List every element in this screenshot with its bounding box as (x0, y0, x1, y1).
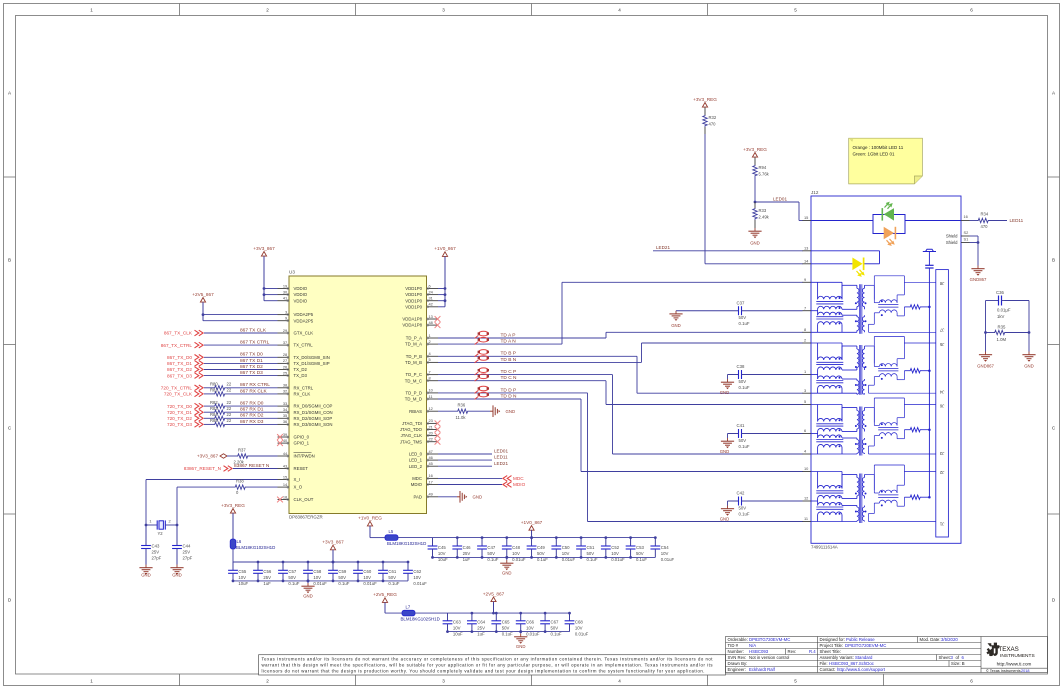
svg-text:+1V0_867: +1V0_867 (521, 520, 543, 525)
wire RBIAS (438, 410, 457, 412)
svg-text:36: 36 (283, 419, 287, 424)
svg-text:LED_1: LED_1 (409, 458, 423, 463)
port 867_TX_D0 (195, 355, 199, 361)
svg-text:C52: C52 (611, 545, 619, 550)
jumper symbol on TD_A_N (479, 337, 489, 342)
svg-text:TD_P_B: TD_P_B (406, 354, 422, 359)
svg-text:B: B (1052, 258, 1055, 263)
node VDDA2P5 junction (202, 313, 205, 316)
svg-text:867 RX D0: 867 RX D0 (240, 401, 264, 407)
no-connect X JTAG_CLK (435, 433, 441, 439)
no-connect X VDDA1P8 pin 48 (435, 322, 441, 328)
capacitor C52 0.01uF (605, 538, 607, 546)
svg-text:8: 8 (429, 376, 431, 381)
svg-text:41: 41 (283, 296, 287, 301)
svg-text:10V: 10V (575, 626, 583, 631)
svg-text:12: 12 (429, 406, 433, 411)
wire TD_B_P vertical to magnetics (636, 356, 638, 393)
svg-text:50V: 50V (288, 575, 296, 580)
svg-text:867 RX D1: 867 RX D1 (240, 407, 264, 413)
svg-text:L7: L7 (406, 605, 411, 610)
svg-text:38: 38 (283, 383, 287, 388)
svg-text:4: 4 (618, 8, 621, 13)
svg-text:5.76k: 5.76k (759, 172, 770, 177)
svg-text:Mod. Date:: Mod. Date: (920, 637, 941, 642)
node VDD1P0 junctions (444, 287, 447, 290)
svg-text:DP83867ERGZR: DP83867ERGZR (289, 515, 323, 520)
wire TD_A_P vertical to magnetics (605, 332, 607, 338)
svg-text:DP83TG720EVM-MC: DP83TG720EVM-MC (845, 643, 886, 648)
wire TD_D_N vertical to magnetics (580, 399, 582, 472)
wire 867_TX_D2 (204, 369, 278, 371)
svg-text:C54: C54 (661, 545, 669, 550)
svg-text:1: 1 (804, 369, 806, 374)
svg-text:TD B N: TD B N (501, 357, 517, 363)
svg-text:22: 22 (227, 382, 232, 387)
svg-text:R34: R34 (981, 212, 989, 217)
svg-text:R81: R81 (210, 388, 218, 393)
no-connect X JTAG_TMS (435, 439, 441, 445)
wire TD_C_N vertical to magnetics (605, 381, 607, 405)
wire 867_TX_CTRL (204, 344, 278, 346)
svg-text:720_TX_CTRL: 720_TX_CTRL (161, 386, 193, 391)
svg-text:R84: R84 (210, 412, 218, 417)
svg-text:1: 1 (429, 333, 431, 338)
svg-text:22: 22 (429, 437, 433, 442)
svg-text:TX_D0/SGMII_SIN: TX_D0/SGMII_SIN (294, 355, 330, 360)
wire 867_TX_D3 (204, 375, 278, 377)
svg-text:25V: 25V (183, 550, 191, 555)
svg-text:TD_P_A: TD_P_A (406, 336, 422, 341)
svg-text:48: 48 (429, 320, 433, 325)
svg-text:GND867: GND867 (977, 364, 994, 369)
wire +3V3 rail top (233, 561, 408, 563)
svg-text:+3V3_REG: +3V3_REG (221, 503, 245, 508)
wire 867_RX_CTRL (226, 387, 278, 389)
svg-text:C42: C42 (737, 491, 745, 496)
port 867_TX_CLK (195, 330, 199, 336)
capacitor C57 0.1uF (282, 562, 284, 570)
svg-text:VDD1P0: VDD1P0 (405, 286, 422, 291)
power +2V5_867 to VDDA2P5 (200, 298, 205, 303)
svg-text:C50: C50 (562, 545, 570, 550)
svg-text:J2: J2 (939, 470, 944, 475)
capacitor C61 0.1uF (382, 562, 384, 570)
shield hat symbol (923, 249, 936, 251)
svg-text:Shield: Shield (946, 240, 958, 245)
wire 867_TX_D0 (204, 356, 278, 358)
no-connect X JTAG_TDI (435, 421, 441, 427)
svg-text:+3V3_REG: +3V3_REG (743, 147, 767, 152)
power +1V0_867 riser on rail (529, 526, 534, 531)
svg-text:0.1uF: 0.1uF (739, 321, 750, 326)
svg-text:Sheet Title:: Sheet Title: (820, 649, 842, 654)
svg-text:4: 4 (618, 678, 621, 683)
svg-text:83867_RESET_N: 83867_RESET_N (184, 466, 221, 471)
svg-text:LED11: LED11 (1010, 218, 1024, 223)
wire X_O to R38 (247, 486, 278, 488)
resistor R35 1.0M (986, 332, 995, 334)
svg-text:2: 2 (266, 678, 269, 683)
J12 shield pins S2 S1 (961, 235, 970, 237)
svg-text:867_TX_D2: 867_TX_D2 (167, 367, 192, 372)
port 867_TX_D2 (195, 367, 199, 373)
svg-text:10V: 10V (238, 575, 246, 580)
svg-text:VDD1P0: VDD1P0 (405, 304, 422, 309)
wire LED01 (438, 453, 492, 455)
svg-text:35: 35 (283, 413, 287, 418)
capacitor C53 0.1uF (630, 538, 632, 546)
svg-text:TD_M_D: TD_M_D (405, 397, 422, 402)
svg-text:0.1uF: 0.1uF (338, 581, 349, 586)
ground GND867 shield (977, 266, 979, 269)
svg-text:50V: 50V (551, 626, 559, 631)
svg-text:VDDA2P5: VDDA2P5 (294, 312, 314, 317)
svg-text:BLM18KG102SH1D: BLM18KG102SH1D (236, 545, 275, 550)
svg-text:DP83TG720EVM-MC: DP83TG720EVM-MC (749, 637, 790, 642)
J12 strip jack labels (939, 281, 944, 286)
svg-text:TD_P_D: TD_P_D (406, 391, 422, 396)
wire shield pins to GND867 (970, 235, 979, 237)
LED green 1Gbit (884, 208, 894, 221)
resistor R36 11.0k (457, 409, 469, 413)
svg-text:10uF: 10uF (438, 557, 448, 562)
wire 867_RX_D1 (226, 411, 278, 413)
svg-text:VDDIO: VDDIO (294, 298, 308, 303)
capacitor C60 0.01uF (357, 562, 359, 570)
capacitor C65 0.1uF (495, 613, 497, 621)
capacitor C56 1uF (257, 562, 259, 570)
svg-text:GND: GND (141, 573, 151, 578)
svg-text:33: 33 (283, 401, 287, 406)
svg-text:RX_D3/SGMII_SON: RX_D3/SGMII_SON (294, 422, 333, 427)
wire +1V0 rail top (398, 537, 655, 539)
svg-text:2: 2 (804, 338, 806, 343)
svg-text:C45: C45 (438, 545, 446, 550)
wire MDC (438, 477, 502, 479)
svg-text:X_I: X_I (294, 477, 300, 482)
port 720_TX_D1 (195, 409, 199, 415)
svg-text:C60: C60 (363, 569, 371, 574)
capacitor C50 0.01uF (555, 538, 557, 546)
svg-text:Green: 1Gbit LED 01: Green: 1Gbit LED 01 (853, 151, 896, 156)
svg-text:JTAG_CLK: JTAG_CLK (401, 433, 423, 438)
wire PAD to GND (438, 496, 457, 498)
svg-text:U3: U3 (289, 269, 295, 274)
wire 867_RX_CLK (226, 393, 278, 395)
ground GND at PAD (457, 496, 460, 498)
crystal Y2 (146, 524, 157, 526)
svg-text:6: 6 (804, 428, 806, 433)
capacitor shield internal (928, 252, 930, 266)
svg-text:LED21: LED21 (656, 245, 670, 250)
svg-text:C36: C36 (996, 290, 1004, 295)
port 720_TX_D0 (195, 403, 199, 409)
svg-text:GND: GND (473, 495, 483, 500)
wire VDDA2P5 feed (203, 314, 278, 316)
svg-text:18: 18 (283, 494, 287, 499)
svg-text:File:: File: (820, 661, 828, 666)
jumper symbol on TD_B_N (479, 356, 489, 361)
svg-text:50V: 50V (636, 551, 644, 556)
svg-text:B: B (8, 258, 11, 263)
jumper symbol on TD_D_N (479, 392, 489, 397)
svg-text:L5: L5 (389, 529, 394, 534)
svg-text:GND: GND (303, 594, 313, 599)
wire MDIO (438, 484, 502, 486)
ground GND at C37 (675, 311, 677, 314)
capacitor C38 0.1uF center tap (728, 374, 739, 376)
svg-text:867_TX_D0: 867_TX_D0 (167, 355, 192, 360)
svg-text:17: 17 (429, 479, 433, 484)
wire 867_TX_D1 (204, 362, 278, 364)
svg-text:C57: C57 (288, 569, 296, 574)
svg-text:10V: 10V (611, 551, 619, 556)
svg-text:RX_D1/SGMII_CON: RX_D1/SGMII_CON (294, 410, 333, 415)
wire +1V0_REG to L5 (370, 537, 385, 539)
no-connect X CLK_OUT pin 18 (277, 497, 283, 503)
svg-text:0.01uF: 0.01uF (413, 581, 427, 586)
resistor R94 5.76k (753, 165, 757, 177)
wire TD_B_N from U3 (438, 361, 642, 363)
wire TD_A_P from U3 (438, 337, 606, 339)
wire shield rail vertical (928, 268, 930, 497)
title block (726, 637, 1048, 673)
svg-text:22: 22 (227, 388, 232, 393)
power +3V3_REG at R94 (752, 153, 757, 158)
svg-text:10uF: 10uF (453, 632, 463, 637)
svg-text:15: 15 (804, 215, 808, 220)
ground GND at RBIAS (490, 410, 493, 412)
svg-text:8: 8 (804, 327, 806, 332)
svg-text:470: 470 (709, 122, 717, 127)
jumper symbol on TD_C_N (479, 374, 489, 379)
wire TD_A_N from U3 (438, 343, 562, 345)
svg-text:21: 21 (429, 424, 433, 429)
svg-text:7: 7 (804, 305, 806, 310)
svg-text:867 TX D1: 867 TX D1 (240, 358, 263, 364)
svg-text:9: 9 (804, 277, 806, 282)
svg-text:C43: C43 (152, 544, 160, 549)
svg-text:GND: GND (516, 644, 526, 649)
svg-text:TD D P: TD D P (501, 387, 517, 393)
svg-text:867 TX D0: 867 TX D0 (240, 352, 263, 358)
port MDIO (507, 482, 511, 488)
svg-text:R80: R80 (210, 382, 218, 387)
TI logo cell (981, 667, 1047, 669)
resistor R84 22 (214, 416, 226, 420)
svg-text:warrant that this design will: warrant that this design will meet the s… (262, 662, 713, 667)
svg-text:JTAG_TMS: JTAG_TMS (400, 439, 422, 444)
svg-text:MDIO: MDIO (513, 482, 526, 487)
svg-text:1: 1 (149, 519, 151, 524)
svg-text:10uF: 10uF (238, 581, 248, 586)
resistor R34 470 (978, 218, 990, 222)
svg-text:1uF: 1uF (463, 557, 471, 562)
svg-text:TX_D1/SGMII_SIP: TX_D1/SGMII_SIP (294, 361, 330, 366)
svg-text:+3V3_REG: +3V3_REG (693, 97, 717, 102)
svg-text:GTX_CLK: GTX_CLK (294, 331, 314, 336)
svg-text:INSTRUMENTS: INSTRUMENTS (1000, 653, 1035, 659)
svg-text:7499111614A: 7499111614A (811, 545, 838, 550)
resistor R81 22 (214, 392, 226, 396)
node R35 junctions (984, 331, 987, 334)
svg-text:VDDA1P8: VDDA1P8 (402, 317, 422, 322)
svg-text:720_TX_D2: 720_TX_D2 (167, 416, 192, 421)
capacitor C45 10uF (432, 538, 434, 546)
ground GND at C42 (727, 501, 729, 506)
svg-text:25: 25 (283, 370, 287, 375)
svg-text:0.1uF: 0.1uF (537, 557, 548, 562)
svg-text:TD_M_A: TD_M_A (405, 342, 422, 347)
svg-text:13: 13 (804, 246, 808, 251)
wire TD_D_P vertical to magnetics (587, 393, 589, 522)
transformer channel B (811, 343, 865, 394)
svg-text:+2V5_REG: +2V5_REG (373, 592, 397, 597)
svg-text:22: 22 (227, 412, 232, 417)
svg-text:+3V3_867: +3V3_867 (322, 540, 344, 545)
svg-text:Contact:: Contact: (820, 667, 836, 672)
capacitor C37 0.1uF center tap (676, 310, 739, 312)
svg-text:0.1uF: 0.1uF (636, 557, 647, 562)
svg-text:TD C P: TD C P (501, 369, 517, 375)
svg-text:N/A: N/A (749, 643, 756, 648)
power +3V3_REG at R32 (702, 103, 707, 108)
power +2V5_REG at L7 (382, 598, 387, 603)
svg-text:R33: R33 (759, 208, 767, 213)
TI logo bug (986, 643, 999, 657)
svg-text:5: 5 (429, 357, 431, 362)
svg-text:TX_CTRL: TX_CTRL (294, 343, 314, 348)
ground GND under R35 (1028, 352, 1030, 355)
port MDC (507, 476, 511, 482)
svg-text:867 RX D3: 867 RX D3 (240, 419, 264, 425)
LED D-green/orange body (873, 215, 905, 234)
svg-text:50V: 50V (739, 315, 747, 320)
ground GND under +1V0 rail (506, 557, 508, 560)
svg-text:LED_0: LED_0 (409, 452, 423, 457)
jumper symbol on TD_C_P (479, 368, 489, 373)
svg-text:J3: J3 (939, 451, 944, 456)
power +2V5_867 riser on rail (491, 597, 496, 602)
svg-text:GND: GND (506, 409, 516, 414)
svg-text:Orderable:: Orderable: (728, 637, 748, 642)
wire TD_D_P from U3 (438, 392, 588, 394)
svg-text:Shield: Shield (946, 234, 958, 239)
svg-text:Rev:: Rev: (788, 649, 797, 654)
svg-text:31: 31 (429, 296, 433, 301)
U3 left pin stubs, numbers and names (278, 288, 290, 290)
svg-text:Sheet:: Sheet: (939, 655, 951, 660)
svg-text:TD A N: TD A N (501, 339, 517, 345)
svg-text:GND: GND (750, 240, 760, 245)
svg-text:X_O: X_O (294, 485, 303, 490)
wire +2V5 rail top (415, 612, 570, 614)
inductor L5 BLM18KG102SH1D (385, 535, 398, 541)
power +3V3_REG at L6 (230, 509, 235, 514)
wire R94 to junction (754, 177, 756, 202)
wire 867_TX_CLK (204, 332, 278, 334)
svg-text:TX_D2: TX_D2 (294, 367, 308, 372)
svg-text:0.01uF: 0.01uF (562, 557, 576, 562)
svg-text:10V: 10V (512, 551, 520, 556)
wire R38 to crystal (177, 486, 235, 488)
svg-text:GND: GND (671, 323, 681, 328)
wire VDD1P0 feed (438, 288, 445, 290)
jumper symbol on TD_D_P (479, 386, 489, 391)
svg-text:5: 5 (804, 399, 806, 404)
svg-text:10V: 10V (313, 575, 321, 580)
svg-text:29: 29 (283, 328, 287, 333)
capacitor C63 10uF (447, 613, 449, 621)
svg-text:TD_P_C: TD_P_C (406, 372, 422, 377)
svg-text:26: 26 (283, 364, 287, 369)
svg-text:C44: C44 (183, 544, 191, 549)
svg-text:VDDIO: VDDIO (294, 286, 308, 291)
svg-text:2: 2 (429, 339, 431, 344)
svg-text:867 TX D2: 867 TX D2 (240, 364, 263, 370)
capacitor C49 0.1uF (531, 538, 533, 546)
svg-text:22: 22 (227, 400, 232, 405)
wire R37 to INT/PWDN (249, 455, 278, 457)
wire to GND below R35 (1028, 333, 1030, 352)
svg-text:47: 47 (429, 449, 433, 454)
port 720_TX_CTRL (195, 385, 199, 391)
svg-text:S2: S2 (964, 230, 969, 235)
svg-text:16: 16 (964, 214, 968, 219)
svg-text:0.1uF: 0.1uF (586, 557, 597, 562)
wire +3V3_867 to R37 (227, 455, 237, 457)
power +3V3_867 riser on rail (330, 545, 335, 550)
wire TD_B_P from U3 (438, 355, 637, 357)
ground GND under C43 (145, 565, 147, 568)
svg-text:0.01uF: 0.01uF (363, 581, 377, 586)
capacitor C66 0.01uF (520, 613, 522, 621)
svg-text:720_TX_CLK: 720_TX_CLK (164, 392, 193, 397)
svg-text:1uF: 1uF (477, 632, 485, 637)
svg-text:3/5/2020: 3/5/2020 (941, 637, 958, 642)
svg-text:45: 45 (429, 461, 433, 466)
no-connect X GPIO_1 pin 40 (277, 440, 283, 446)
svg-text:C62: C62 (413, 569, 421, 574)
svg-text:50V: 50V (586, 551, 594, 556)
svg-text:GPIO_0: GPIO_0 (294, 435, 310, 440)
svg-text:16: 16 (429, 473, 433, 478)
svg-text:INT/PWDN: INT/PWDN (294, 454, 315, 459)
svg-text:J1: J1 (939, 522, 944, 527)
capacitor C46 1uF (456, 538, 458, 546)
svg-text:RX_D2/SGMII_SOP: RX_D2/SGMII_SOP (294, 416, 333, 421)
svg-text:J6: J6 (939, 404, 944, 409)
wire 720_TX_CLK (204, 393, 214, 395)
svg-text:R32: R32 (709, 115, 717, 120)
svg-text:2: 2 (169, 519, 171, 524)
no-connect X JTAG_TDO (435, 427, 441, 433)
svg-text:470: 470 (981, 224, 989, 229)
wire TD_C_N from U3 (438, 380, 606, 382)
wire C36 R35 network (986, 300, 999, 302)
capacitor C51 0.1uF (580, 538, 582, 546)
power +1V0_REG at L5 (367, 521, 372, 526)
svg-text:10V: 10V (661, 551, 669, 556)
wire L6 to rail (232, 549, 234, 562)
resistor R85 22 (214, 422, 226, 426)
svg-text:RX_CTRL: RX_CTRL (294, 385, 314, 390)
svg-text:RESET: RESET (294, 466, 309, 471)
svg-text:720_TX_D0: 720_TX_D0 (167, 404, 192, 409)
wire LED01 to J12 pin 15 (755, 201, 799, 203)
node crystal left junction (145, 524, 148, 527)
